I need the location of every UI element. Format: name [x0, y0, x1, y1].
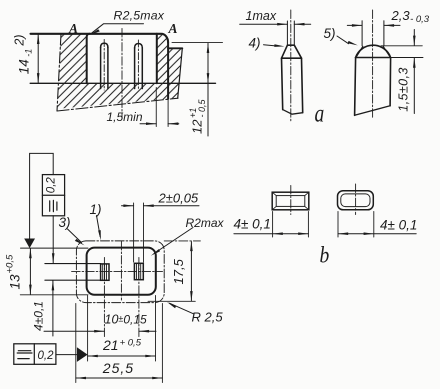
detail 5 pin dome [356, 45, 391, 57]
right wall hatch [158, 34, 168, 83]
dimension 1,5min right arrow [168, 123, 179, 125]
detail 5 pin centerline [372, 10, 374, 118]
svg-text:4± 0,1: 4± 0,1 [380, 218, 417, 233]
pin section b left outer [234, 184, 416, 237]
plan view dashed outer contour [76, 241, 164, 303]
datum triangle on left edge [77, 347, 88, 362]
pin section b left inner chamfer [276, 196, 305, 207]
dimension 25,5 line [76, 377, 163, 379]
right wall inner edge [156, 34, 158, 84]
dimension 1,5 extension lines [381, 46, 423, 58]
dimension 1,5 arrow top [413, 30, 415, 46]
pin 1 section [101, 43, 108, 88]
pin 1 edge lines extended left [45, 264, 101, 281]
pin 2 centerline [137, 40, 139, 90]
pin section b left centerline [290, 186, 292, 215]
leader R2,5 [170, 303, 194, 314]
detail 4 pin body [282, 58, 303, 112]
svg-text:0,2: 0,2 [46, 177, 58, 194]
dimension text 12 +1 -0,5 rotated [188, 98, 207, 134]
svg-text:25,5: 25,5 [102, 360, 134, 376]
pin 1 plan section [101, 264, 109, 280]
base and step hatch [57, 49, 181, 109]
svg-text:A: A [68, 21, 78, 36]
step top surface [168, 47, 182, 49]
body left edge extension line [87, 296, 89, 362]
tolerance frame vertical [42, 175, 64, 216]
dimension 12 line [207, 43, 209, 136]
dimension 1max line left [240, 23, 288, 25]
base bottom break line (chain) [57, 98, 178, 111]
dimension 2 extension lines [134, 203, 144, 262]
body left outer edge (chain) [57, 34, 61, 111]
svg-text:13: 13 [7, 274, 22, 290]
dimension 1,5min left arrow [140, 123, 156, 125]
tolerance frame horizontal [14, 344, 56, 365]
dimension 10 line with outside arrows [44, 330, 156, 332]
dimension 1,5min extension lines [156, 88, 168, 127]
dimension 17,5 top extension (chain) [164, 240, 200, 242]
svg-text:+0,5: +0,5 [4, 254, 15, 273]
dimension 4 right section [338, 212, 374, 238]
dashed contour right extension line [161, 304, 163, 383]
pin 1 plan centerline [103, 258, 105, 337]
dimension 2,3 line left [347, 24, 362, 26]
dimension 21 line [88, 355, 156, 357]
step right edge [178, 48, 183, 98]
detail 4 pin bottom cut [283, 110, 303, 115]
dimension 17,5 line [190, 242, 192, 301]
svg-text:A: A [168, 21, 178, 36]
svg-text:4): 4) [249, 36, 261, 51]
dimension 2 right arrow [144, 205, 200, 207]
svg-text:R2,5max: R2,5max [114, 9, 165, 23]
cavity floor reference line [30, 82, 215, 84]
detail 4 pin outline [282, 45, 302, 58]
leader 4) [264, 45, 276, 46]
dimension 17,5 bottom extension [148, 300, 195, 302]
svg-text:1,5±0,3: 1,5±0,3 [396, 67, 410, 111]
pin 2 plan section [134, 263, 143, 279]
section view centerline [121, 29, 123, 118]
svg-text:1,5min: 1,5min [107, 110, 143, 124]
svg-text:1): 1) [90, 202, 102, 217]
svg-text:4±0,1: 4±0,1 [32, 301, 46, 331]
svg-text:10±0,15: 10±0,15 [105, 313, 148, 327]
leader R2max [154, 228, 193, 254]
leader 1) [97, 216, 101, 237]
frame connector to datum triangle [56, 354, 77, 356]
leader R2,5max [92, 24, 144, 33]
dimension 13 line [29, 249, 31, 294]
detail 5 pin body [355, 58, 391, 116]
svg-text:a: a [315, 99, 325, 127]
pin section b right inner [341, 194, 370, 207]
svg-text:- 0,5: - 0,5 [197, 98, 207, 117]
plan view body outline [87, 248, 156, 295]
detail 5 dome extension lines 2,3 [362, 21, 384, 46]
dimension 12 extension line top [172, 42, 223, 44]
detail 5 body top edge [356, 57, 391, 59]
section body top surface line [31, 34, 169, 43]
parallelism symbol in horizontal frame [17, 351, 32, 359]
detail 5 pin bottom cut [355, 106, 391, 116]
datum triangle on top edge [24, 239, 35, 249]
pin 1 centerline [103, 40, 105, 91]
svg-text:0,2: 0,2 [38, 350, 55, 362]
dimension 1max line right [294, 23, 310, 25]
pin section b right outer [338, 191, 374, 210]
dimension 1,5 arrow bottom [413, 58, 415, 114]
dimension 4 left section [273, 212, 309, 238]
dimension 12 arrow top [207, 43, 210, 53]
dimension 4 lower tail [52, 281, 54, 336]
leader 5) [337, 36, 349, 44]
right wall outer edge [167, 43, 169, 99]
frame leader arrow to pin line [52, 216, 54, 263]
svg-text:R 2,5: R 2,5 [192, 310, 224, 325]
dimension 2,3 line right [384, 24, 400, 26]
dimension 14-1 arrow bottom [37, 73, 40, 83]
detail 4 pin tip extension lines [287, 21, 294, 45]
svg-text:4± 0,1: 4± 0,1 [234, 217, 271, 232]
datum top edge extension line [21, 247, 89, 249]
dimension 14-1 line [37, 35, 39, 83]
bottom edge extension line [20, 294, 88, 296]
svg-text:2±0,05: 2±0,05 [158, 191, 199, 206]
dashed contour left extension line [75, 304, 77, 383]
plan view horizontal centerline [72, 271, 163, 273]
dimension 2 left arrow [122, 205, 134, 207]
svg-text:2): 2) [13, 34, 27, 46]
svg-text:5): 5) [324, 26, 336, 41]
svg-text:1max: 1max [246, 9, 277, 23]
left wall inner edge [87, 34, 90, 84]
dimension text 13+0,5 rotated [4, 254, 22, 289]
detail 4 pin centerline [290, 10, 292, 122]
svg-text:12: 12 [190, 119, 205, 134]
dimension 12 arrow bottom [207, 73, 210, 83]
pin section b right centerline [355, 184, 357, 215]
svg-text:R2max: R2max [186, 216, 225, 230]
pin 2 section [135, 44, 143, 89]
leader 3) [68, 229, 82, 243]
parallelism symbol in vertical frame [50, 200, 57, 211]
pin 2 plan centerline [138, 258, 140, 337]
left wall hatch [59, 34, 89, 83]
dimension 14-1 arrow top [37, 34, 40, 44]
svg-text:17,5: 17,5 [171, 258, 186, 284]
svg-text:3): 3) [59, 215, 71, 230]
svg-text:b: b [320, 242, 330, 268]
body right edge extension line [155, 296, 157, 362]
plan view vertical centerline [120, 242, 122, 301]
datum connection to tolerance frame [30, 153, 54, 238]
detail 5 dome side chamfers [356, 46, 390, 57]
